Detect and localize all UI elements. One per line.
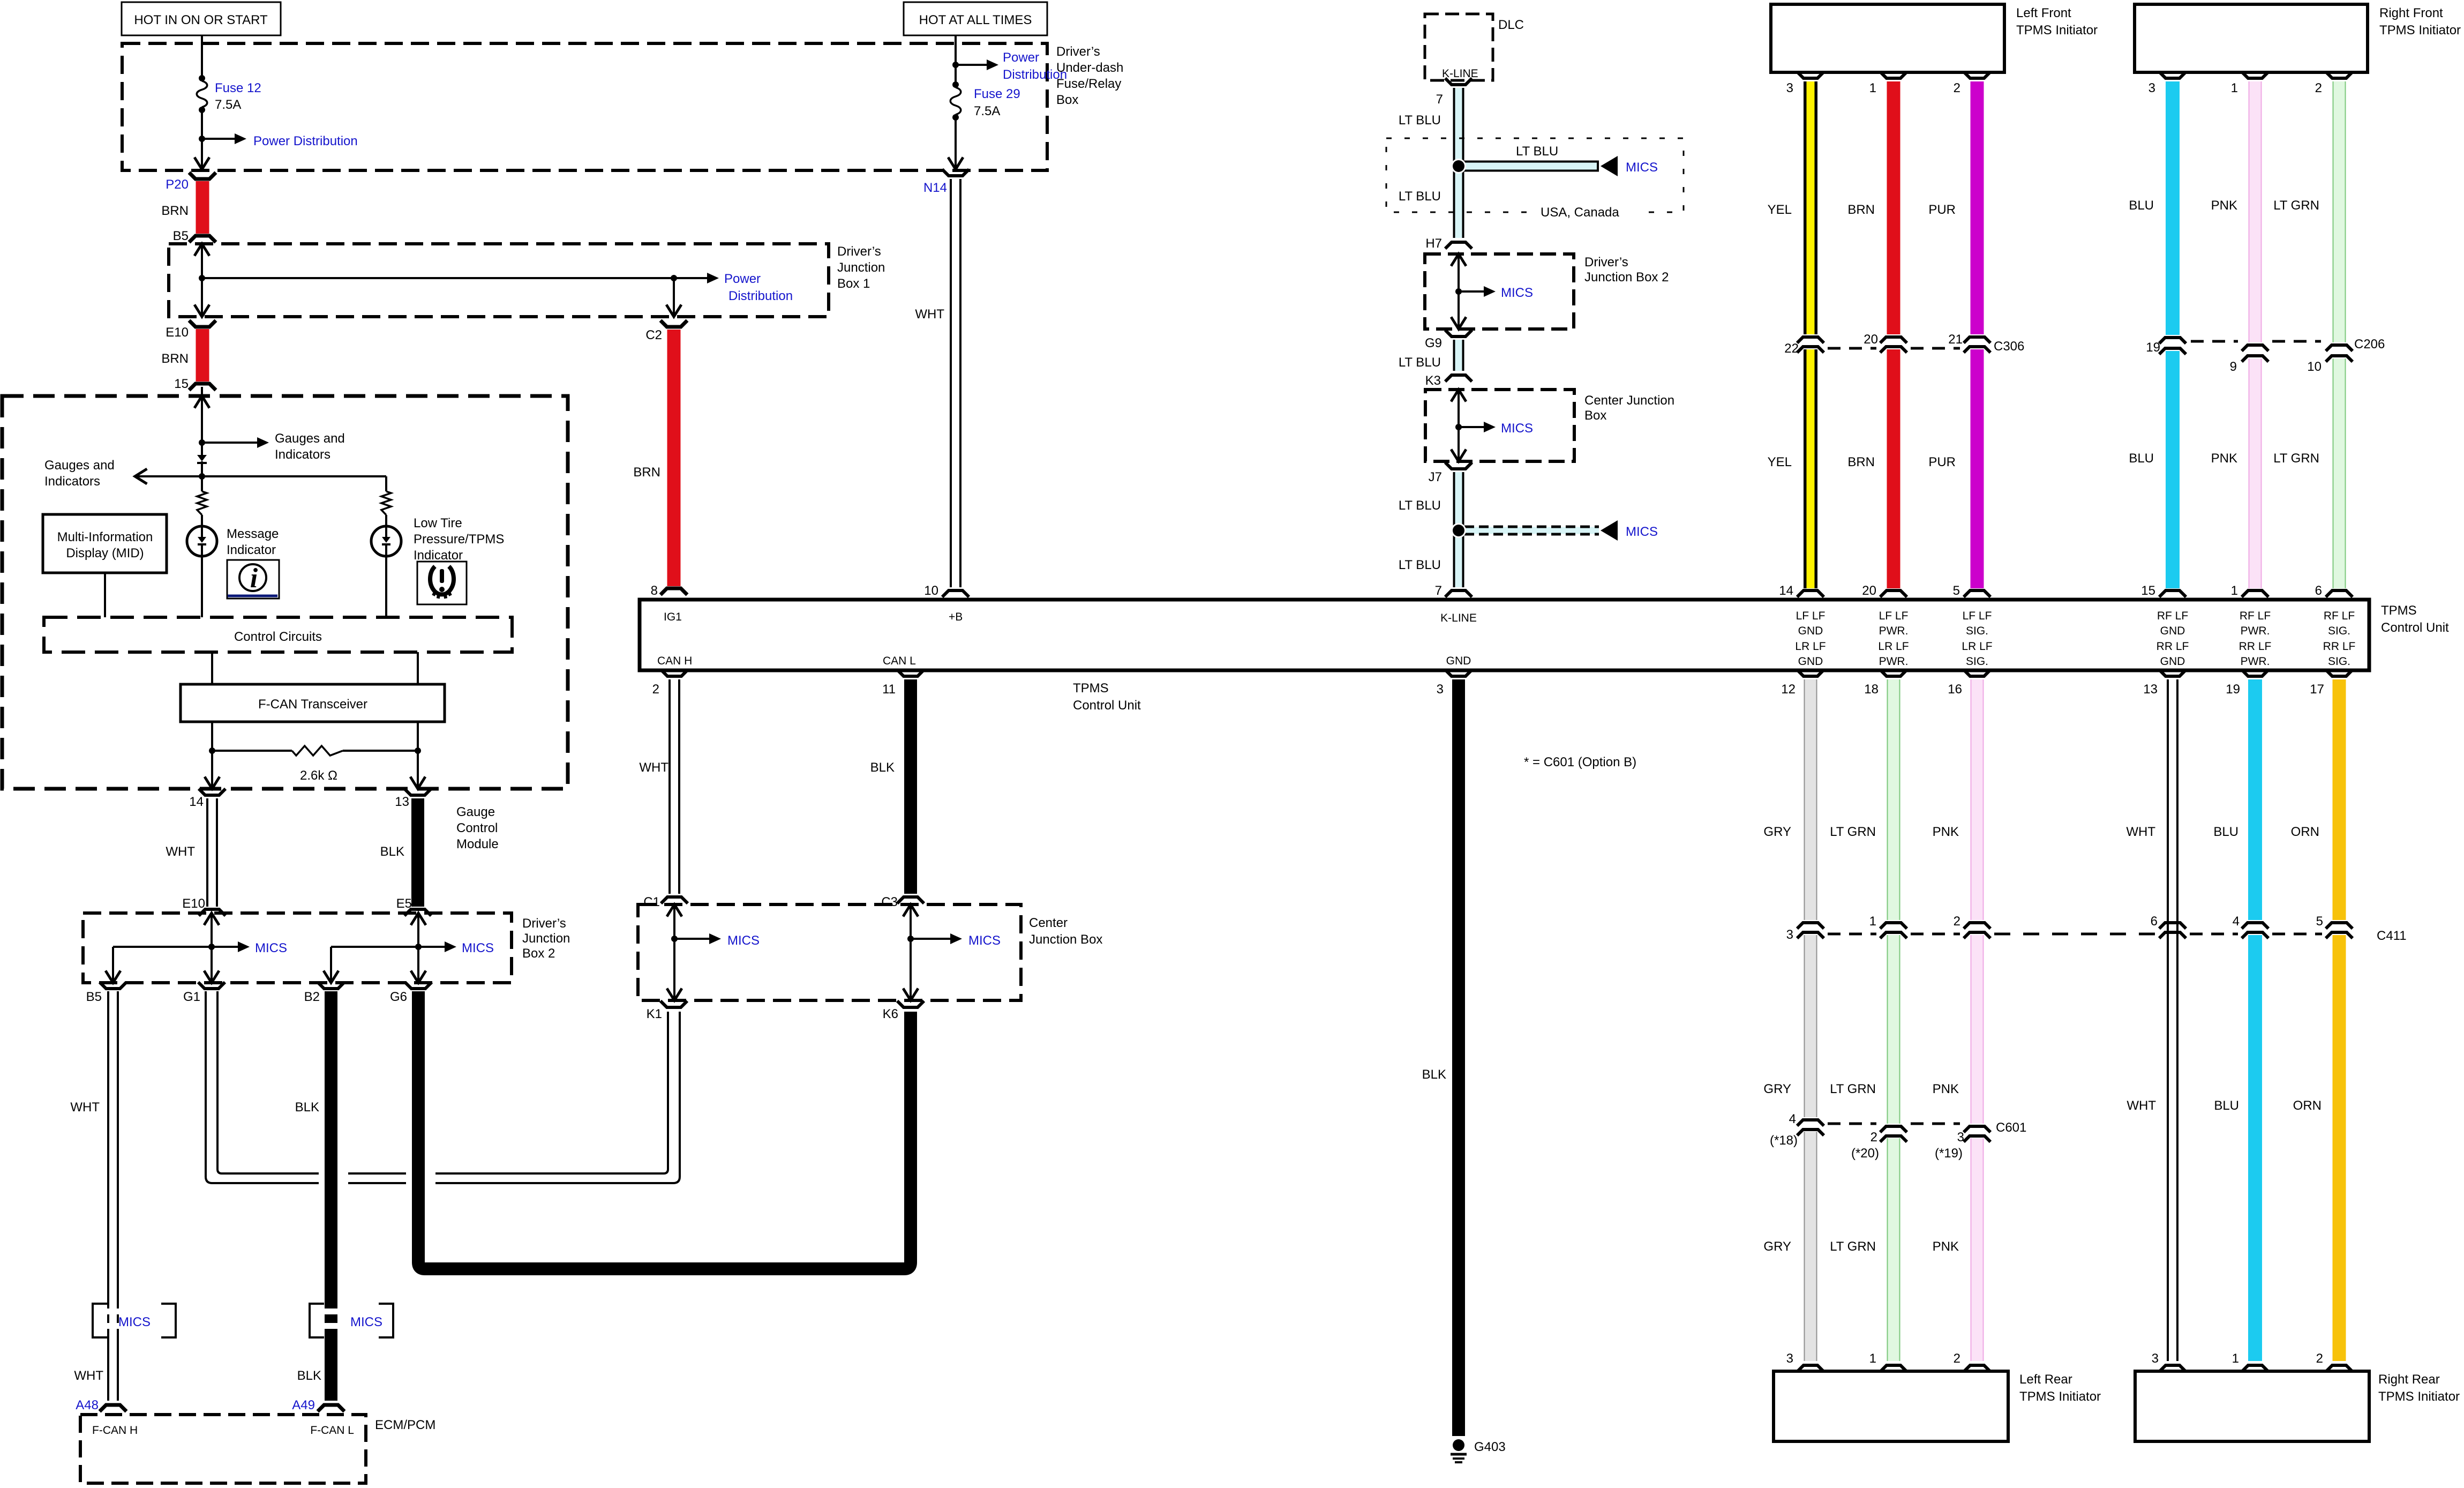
wire B2 BLK down	[295, 982, 344, 1401]
svg-text:7.5A: 7.5A	[974, 104, 1000, 118]
svg-text:Left Front: Left Front	[2016, 6, 2071, 20]
svg-text:Indicators: Indicators	[275, 447, 330, 462]
wire GRY C411 to C601	[1763, 935, 1811, 1117]
Driver's Junction Box 2 (K-line, dashed)	[1425, 254, 1669, 329]
dashed LT BLU MICS branch	[1451, 520, 1658, 541]
Right Rear TPMS Initiator box	[2135, 1371, 2460, 1441]
connector pin 10	[924, 584, 969, 598]
svg-text:RR LF: RR LF	[2323, 640, 2356, 653]
svg-text:WHT: WHT	[915, 307, 944, 321]
connector A49	[292, 1398, 344, 1412]
connector A48	[76, 1398, 126, 1412]
junction box internals (K-line JB2)	[1451, 254, 1533, 329]
power distribution label (left)	[253, 134, 358, 148]
svg-text:5: 5	[2316, 914, 2323, 929]
svg-text:PNK: PNK	[2211, 198, 2237, 213]
svg-text:TPMS Initiator: TPMS Initiator	[2378, 1389, 2460, 1404]
svg-text:E5: E5	[396, 896, 412, 911]
power source box HOT IN ON OR START	[122, 2, 281, 35]
wire WHT pin2 to C1	[639, 679, 674, 894]
wire LT BLU DLC to H7	[1399, 88, 1459, 238]
resistor R1 (message indicator branch)	[197, 476, 207, 526]
svg-text:Power: Power	[724, 272, 761, 286]
svg-text:WHT: WHT	[70, 1100, 100, 1115]
junction box internals (K-line center)	[1451, 390, 1533, 461]
svg-text:14: 14	[189, 795, 204, 809]
svg-text:LF LF: LF LF	[1796, 610, 1826, 622]
svg-text:RF LF: RF LF	[2240, 610, 2271, 622]
labels E10 E5	[182, 896, 412, 911]
svg-text:Right Rear: Right Rear	[2378, 1372, 2440, 1387]
Driver's Junction Box 2 (dashed)	[83, 913, 570, 983]
connector pin 1 (LF initiator)	[1869, 72, 1907, 95]
svg-text:RF LF: RF LF	[2324, 610, 2355, 622]
svg-text:PUR: PUR	[1928, 203, 1956, 217]
connector 7 (DLC)	[1436, 78, 1472, 107]
svg-text:BRN: BRN	[161, 204, 189, 218]
wire with power distribution tap	[952, 35, 998, 85]
svg-text:Gauges and: Gauges and	[44, 458, 115, 473]
svg-text:HOT IN ON OR START: HOT IN ON OR START	[134, 13, 268, 27]
svg-text:6: 6	[2315, 584, 2322, 598]
message indicator lamp	[187, 526, 217, 556]
wire BLU pin19 to C411	[2213, 679, 2255, 920]
svg-text:Driver’s: Driver’s	[522, 916, 566, 931]
svg-text:Right Front: Right Front	[2379, 6, 2443, 20]
LT BLU branch to MICS (USA/Canada)	[1451, 144, 1658, 176]
svg-text:E10: E10	[182, 896, 205, 911]
svg-text:Junction: Junction	[522, 931, 570, 946]
Driver's Junction Box 1 (dashed)	[169, 244, 885, 317]
svg-text:K1: K1	[647, 1007, 662, 1021]
connectors pins 15 1 6	[2141, 584, 2353, 598]
svg-text:GND: GND	[2160, 625, 2185, 637]
junction box 2 internals E10 branch	[106, 913, 287, 983]
svg-text:MICS: MICS	[1626, 160, 1658, 175]
Multi-Information Display (MID) box	[43, 514, 167, 617]
svg-text:14: 14	[1779, 584, 1793, 598]
svg-text:7: 7	[1436, 92, 1443, 107]
labels B5 G1 B2 G6	[86, 990, 407, 1004]
svg-text:PWR.: PWR.	[1879, 625, 1909, 637]
connector pin 3 (LF initiator)	[1786, 72, 1824, 95]
power source box HOT AT ALL TIMES	[904, 2, 1047, 35]
svg-text:Box 1: Box 1	[837, 276, 870, 291]
wire WHT C411 to RR pin 3 (label)	[2127, 1098, 2156, 1113]
svg-text:(*19): (*19)	[1935, 1146, 1963, 1161]
svg-text:WHT: WHT	[639, 760, 668, 775]
svg-text:J7: J7	[1429, 470, 1442, 484]
connector pin 11	[882, 670, 924, 697]
svg-text:18: 18	[1864, 682, 1879, 697]
wire to control circuits	[201, 556, 203, 617]
svg-text:1: 1	[2231, 584, 2238, 598]
wire fuse 29 to box edge	[948, 117, 963, 169]
svg-text:BLK: BLK	[1422, 1067, 1446, 1082]
wire PNK C601 to LR pin 2	[1933, 1138, 1977, 1361]
junction box 1 internal wires	[194, 244, 719, 317]
svg-text:P20: P20	[166, 177, 189, 192]
svg-text:MICS: MICS	[462, 941, 494, 955]
svg-text:MICS: MICS	[1501, 421, 1533, 436]
wire BLK pin13 to E5	[380, 798, 431, 916]
svg-text:17: 17	[2310, 682, 2324, 697]
svg-text:WHT: WHT	[166, 844, 195, 859]
TPMS Control Unit label (right)	[2381, 603, 2449, 635]
fuse F29	[950, 81, 1020, 121]
svg-text:Control Unit: Control Unit	[1073, 698, 1141, 713]
svg-text:6: 6	[2151, 914, 2158, 929]
wire G6 BLK elbow to K6	[405, 982, 911, 1269]
svg-text:TPMS: TPMS	[2381, 603, 2417, 618]
labels C1 C3	[643, 895, 898, 909]
svg-text:Control: Control	[456, 821, 498, 835]
wire C2 BRN to pin 8	[633, 330, 687, 598]
connectors pins 14 20 5	[1779, 584, 1990, 598]
MICS inline box (B5)	[93, 1304, 176, 1337]
svg-text:BRN: BRN	[633, 465, 660, 480]
svg-text:E10: E10	[166, 325, 189, 340]
svg-text:BRN: BRN	[161, 352, 189, 366]
low tire pressure/TPMS indicator lamp	[371, 526, 401, 617]
svg-text:LT GRN: LT GRN	[1830, 1082, 1876, 1096]
svg-text:2: 2	[1954, 81, 1960, 95]
svg-text:BRN: BRN	[1847, 455, 1875, 469]
power distribution label (junction box 1)	[724, 272, 793, 303]
svg-text:LT GRN: LT GRN	[2273, 451, 2319, 466]
svg-text:BLK: BLK	[295, 1100, 319, 1115]
option note	[1524, 755, 1636, 769]
svg-text:K-LINE: K-LINE	[1440, 612, 1477, 624]
Center Junction Box (dashed)	[638, 904, 1102, 1000]
Center Junction Box (K-line, dashed)	[1425, 390, 1674, 461]
svg-text:PWR.: PWR.	[2241, 625, 2270, 637]
svg-text:PNK: PNK	[1933, 1082, 1959, 1096]
svg-text:C411: C411	[2377, 929, 2407, 943]
svg-text:DLC: DLC	[1498, 18, 1524, 32]
svg-text:* = C601 (Option B): * = C601 (Option B)	[1524, 755, 1636, 769]
svg-text:BLK: BLK	[870, 760, 895, 775]
svg-text:GND: GND	[2160, 655, 2185, 668]
svg-text:LT GRN: LT GRN	[1830, 1239, 1876, 1254]
Driver's Under-dash Fuse/Relay Box (dashed)	[122, 43, 1123, 170]
svg-text:11: 11	[882, 682, 896, 697]
ground G403	[1451, 1439, 1506, 1462]
svg-text:MICS: MICS	[1626, 525, 1658, 539]
svg-text:LT BLU: LT BLU	[1399, 113, 1441, 128]
wire WHT N14 to pin 10	[915, 179, 956, 587]
svg-text:C2: C2	[645, 328, 662, 342]
Gauge Control Module box (dashed)	[2, 396, 568, 851]
connector G9	[1425, 330, 1472, 350]
svg-text:LR LF: LR LF	[1878, 640, 1909, 653]
Right Front TPMS Initiator box	[2135, 4, 2461, 72]
svg-text:C206: C206	[2354, 337, 2385, 352]
svg-text:MICS: MICS	[118, 1315, 151, 1329]
svg-text:Display (MID): Display (MID)	[66, 546, 144, 560]
Left Rear TPMS Initiator box	[1774, 1371, 2101, 1441]
svg-text:SIG.: SIG.	[2328, 655, 2350, 668]
svg-text:19: 19	[2226, 682, 2240, 697]
svg-text:3: 3	[1957, 1130, 1964, 1145]
connector K3	[1425, 373, 1472, 388]
svg-text:i: i	[250, 563, 258, 594]
svg-text:1: 1	[1869, 81, 1876, 95]
connector pin 13	[395, 789, 431, 809]
svg-text:YEL: YEL	[1768, 455, 1792, 469]
info icon	[227, 560, 279, 599]
svg-text:Left Rear: Left Rear	[2019, 1372, 2072, 1387]
svg-text:ORN: ORN	[2293, 1098, 2322, 1113]
wire LT BLU G9-K3	[1399, 340, 1459, 371]
svg-text:Message: Message	[227, 527, 279, 541]
svg-text:7.5A: 7.5A	[215, 98, 241, 112]
svg-text:BLU: BLU	[2214, 1098, 2239, 1113]
DLC box (dashed)	[1425, 14, 1524, 80]
svg-text:F-CAN L: F-CAN L	[310, 1424, 354, 1437]
svg-text:MICS: MICS	[255, 941, 287, 955]
wire PNK RF pin1 to C206	[2211, 81, 2255, 342]
svg-text:13: 13	[2143, 682, 2158, 697]
svg-text:Multi-Information: Multi-Information	[57, 530, 153, 544]
svg-text:GND: GND	[1798, 625, 1823, 637]
svg-text:ECM/PCM: ECM/PCM	[375, 1418, 435, 1432]
svg-text:WHT: WHT	[2127, 1098, 2156, 1113]
wire from HOT IN ON OR START to fuse 12	[201, 35, 203, 78]
svg-text:RR LF: RR LF	[2157, 640, 2189, 653]
TPMS control unit pin labels row 2	[657, 655, 1471, 667]
svg-text:Indicator: Indicator	[414, 548, 463, 563]
svg-text:4: 4	[2233, 914, 2240, 929]
svg-text:BLU: BLU	[2213, 825, 2238, 839]
svg-text:TPMS: TPMS	[1073, 681, 1109, 696]
svg-text:LT GRN: LT GRN	[2273, 198, 2319, 213]
svg-text:HOT AT ALL TIMES: HOT AT ALL TIMES	[919, 13, 1032, 27]
svg-text:3: 3	[2152, 1351, 2159, 1366]
connector C3	[897, 897, 924, 903]
center junction box internals C3 branch	[903, 904, 1001, 1000]
wire ORN pin17 to C411	[2291, 679, 2339, 920]
svg-text:C601: C601	[1996, 1120, 2026, 1135]
connector pin 3 GND	[1437, 670, 1472, 697]
connectors pins 12 18 16 13 19 17	[1781, 670, 2353, 697]
svg-text:BRN: BRN	[1847, 203, 1875, 217]
connector C411	[1786, 914, 2407, 943]
svg-text:Gauge: Gauge	[456, 805, 495, 819]
svg-text:F-CAN Transceiver: F-CAN Transceiver	[258, 697, 367, 712]
svg-text:Control Unit: Control Unit	[2381, 620, 2449, 635]
svg-text:Gauges and: Gauges and	[275, 431, 345, 446]
svg-text:Driver’s: Driver’s	[1584, 255, 1628, 270]
svg-text:LR LF: LR LF	[1962, 640, 1992, 653]
Left Front TPMS Initiator box	[1771, 4, 2098, 72]
svg-text:B2: B2	[304, 990, 320, 1004]
wire BRN LF pin1 to C306	[1847, 81, 1894, 334]
svg-text:Indicators: Indicators	[44, 474, 100, 489]
svg-text:CAN H: CAN H	[657, 655, 692, 667]
svg-text:Module: Module	[456, 837, 499, 851]
svg-text:Distribution: Distribution	[1003, 68, 1067, 82]
svg-text:GND: GND	[1446, 655, 1471, 667]
connector C2	[645, 320, 687, 342]
svg-text:Fuse 29: Fuse 29	[974, 87, 1020, 101]
wire fuse 12 to P20 with power distribution tap	[194, 110, 246, 169]
wire BRN C306 to pin 20	[1847, 349, 1894, 588]
TPMS control unit pin labels row 1	[664, 611, 1477, 624]
svg-text:TPMS Initiator: TPMS Initiator	[2379, 23, 2461, 38]
svg-text:9: 9	[2230, 360, 2237, 374]
wires control circuits to F-CAN transceiver	[212, 652, 418, 789]
connector E10/15 (BRN wire)	[161, 320, 216, 391]
svg-text:3: 3	[1786, 1351, 1793, 1366]
svg-text:2: 2	[2316, 1351, 2323, 1366]
svg-text:WHT: WHT	[2126, 825, 2155, 839]
wire PUR LF pin2 to C306	[1928, 81, 1977, 334]
svg-text:2.6k Ω: 2.6k Ω	[300, 768, 337, 783]
connectors K1 K6 and labels	[647, 1001, 687, 1021]
svg-text:F-CAN H: F-CAN H	[92, 1424, 138, 1437]
wire BLK GND to G403	[1422, 679, 1459, 1436]
junction box 2 internals E5 branch	[324, 913, 494, 983]
connector J7	[1429, 462, 1472, 484]
connector pin 2 (RF initiator)	[2315, 72, 2353, 95]
svg-text:RR LF: RR LF	[2239, 640, 2272, 653]
wire LT BLU J7 to pin 7 with MICS branch	[1399, 472, 1459, 587]
connector pin 2 (LF initiator)	[1954, 72, 1990, 95]
svg-text:13: 13	[395, 795, 409, 809]
svg-text:BLU: BLU	[2129, 451, 2154, 466]
wire LT GRN C206 to pin 6	[2273, 358, 2339, 588]
svg-text:SIG.: SIG.	[1966, 625, 1988, 637]
svg-text:16: 16	[1948, 682, 1962, 697]
svg-text:PNK: PNK	[1933, 1239, 1959, 1254]
svg-text:Fuse 12: Fuse 12	[215, 81, 261, 95]
fuse F12	[197, 75, 261, 113]
svg-text:(*18): (*18)	[1770, 1133, 1798, 1148]
svg-text:Control Circuits: Control Circuits	[234, 630, 322, 644]
connector pin 2	[652, 670, 688, 697]
svg-text:10: 10	[2307, 360, 2322, 374]
svg-text:PWR.: PWR.	[2241, 655, 2270, 668]
svg-text:GRY: GRY	[1763, 825, 1791, 839]
svg-text:GRY: GRY	[1763, 1082, 1791, 1096]
svg-text:Junction Box 2: Junction Box 2	[1584, 270, 1669, 285]
svg-text:N14: N14	[923, 181, 947, 195]
svg-text:Box: Box	[1584, 408, 1606, 423]
svg-text:BLK: BLK	[297, 1369, 321, 1383]
svg-text:3: 3	[1786, 928, 1793, 942]
svg-text:3: 3	[1437, 682, 1444, 697]
svg-text:Power: Power	[1003, 50, 1039, 65]
wire WHT pin14 to E10	[166, 798, 226, 916]
svg-text:PNK: PNK	[2211, 451, 2237, 466]
svg-text:ORN: ORN	[2291, 825, 2319, 839]
USA Canada dotted box	[1386, 138, 1684, 221]
ECM/PCM box (dashed)	[80, 1415, 435, 1483]
TPMS Control Unit box	[640, 600, 2369, 670]
svg-text:Power Distribution: Power Distribution	[253, 134, 358, 148]
resistor R2 (TPMS indicator branch)	[381, 476, 391, 526]
svg-text:1: 1	[1869, 1351, 1876, 1366]
TPMS warning icon	[417, 562, 467, 604]
svg-text:MICS: MICS	[968, 933, 1001, 948]
svg-text:2: 2	[1954, 1351, 1960, 1366]
svg-text:BLK: BLK	[380, 844, 404, 859]
svg-text:20: 20	[1862, 584, 1876, 598]
wire GRY C601 to LR pin 3	[1763, 1132, 1811, 1361]
wire PNK C206 to pin 1	[2211, 358, 2255, 588]
connector N14	[923, 169, 969, 195]
svg-text:2: 2	[1954, 914, 1960, 929]
svg-text:15: 15	[2141, 584, 2155, 598]
svg-text:PWR.: PWR.	[1879, 655, 1909, 668]
wire ORN C411 to RR pin 2	[2293, 935, 2339, 1361]
svg-text:A49: A49	[292, 1398, 315, 1412]
svg-text:B5: B5	[173, 229, 189, 243]
wire G1 WHT elbow to K1	[198, 982, 680, 1183]
svg-text:Center: Center	[1029, 916, 1068, 930]
svg-text:Indicator: Indicator	[227, 543, 276, 557]
svg-text:LT BLU: LT BLU	[1399, 558, 1441, 572]
wire WHT pin13 to C411	[2126, 679, 2173, 1361]
svg-text:12: 12	[1781, 682, 1796, 697]
svg-text:A48: A48	[76, 1398, 99, 1412]
svg-text:LT BLU: LT BLU	[1399, 189, 1441, 204]
svg-text:Low Tire: Low Tire	[414, 516, 462, 530]
svg-text:Driver’s: Driver’s	[1056, 44, 1100, 59]
svg-text:LF LF: LF LF	[1879, 610, 1909, 622]
wire PNK pin16 to C411	[1933, 679, 1977, 920]
gauges and indicators bus (left arrow)	[135, 469, 386, 484]
exit arrows pins 14 and 13	[205, 777, 425, 789]
svg-text:Driver’s: Driver’s	[837, 244, 881, 259]
svg-text:Center Junction: Center Junction	[1584, 393, 1674, 408]
svg-text:2: 2	[1870, 1130, 1877, 1145]
gauges and indicators label (right)	[275, 431, 345, 462]
svg-text:K3: K3	[1425, 373, 1441, 388]
wire BLU C411 to RR pin 1	[2214, 935, 2255, 1361]
svg-text:LT BLU: LT BLU	[1399, 355, 1441, 370]
svg-text:20: 20	[1864, 332, 1878, 347]
svg-text:IG1: IG1	[664, 611, 682, 623]
svg-text:TPMS Initiator: TPMS Initiator	[2019, 1389, 2101, 1404]
svg-text:C3: C3	[881, 895, 898, 909]
wire GRY pin12 to C411	[1763, 679, 1811, 920]
svg-text:2: 2	[2315, 81, 2322, 95]
Control Circuits box (dashed)	[44, 617, 512, 652]
connector pin 3 (RF initiator)	[2149, 72, 2186, 95]
svg-text:+B: +B	[949, 611, 963, 623]
svg-text:10: 10	[924, 584, 938, 598]
connector C601	[1770, 1112, 2026, 1161]
svg-text:LT BLU: LT BLU	[1516, 144, 1558, 159]
wire BLK pin11 to C3	[870, 679, 911, 894]
svg-text:LF LF: LF LF	[1963, 610, 1992, 622]
F-CAN Transceiver box	[181, 684, 445, 722]
svg-text:G1: G1	[183, 990, 200, 1004]
connector pin 7	[1435, 584, 1472, 598]
svg-text:1: 1	[2231, 81, 2238, 95]
svg-text:22: 22	[1784, 341, 1799, 356]
wire BLU C206 to pin 15	[2129, 351, 2173, 588]
wire BLU RF pin3 to C206	[2129, 81, 2173, 335]
svg-text:MICS: MICS	[727, 933, 760, 948]
svg-text:C1: C1	[643, 895, 660, 909]
svg-text:5: 5	[1953, 584, 1960, 598]
diode D1	[197, 455, 207, 476]
svg-text:GND: GND	[1798, 655, 1823, 668]
svg-text:7: 7	[1435, 584, 1442, 598]
